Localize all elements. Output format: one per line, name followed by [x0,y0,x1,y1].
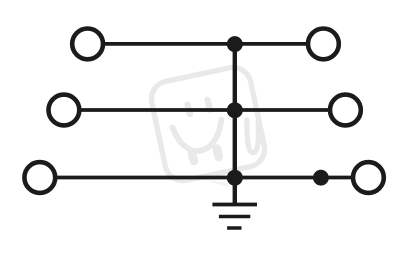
junction node rail3/bus [227,170,243,186]
watermark logo (manufacturer mark, light gray) [148,64,268,187]
junction node rail3 right tap [313,170,329,186]
terminal 3.1 (bottom left) [24,162,55,193]
ground symbol [212,205,257,229]
terminal 2.1 (middle left) [49,95,80,126]
junction node rail2/bus [227,102,243,118]
terminal 3.2 (bottom right) [353,162,384,193]
wire vertical bus [233,44,237,204]
terminal 2.2 (middle right) [330,95,361,126]
wire rail 3 (bottom level, PE) [57,176,351,180]
junction node rail1/bus [227,36,243,52]
terminal 1.1 (top left) [72,29,103,60]
terminal 1.2 (top right) [308,29,339,60]
wire rail 1 (top level) [105,42,306,46]
wire rail 2 (middle level) [81,108,328,112]
